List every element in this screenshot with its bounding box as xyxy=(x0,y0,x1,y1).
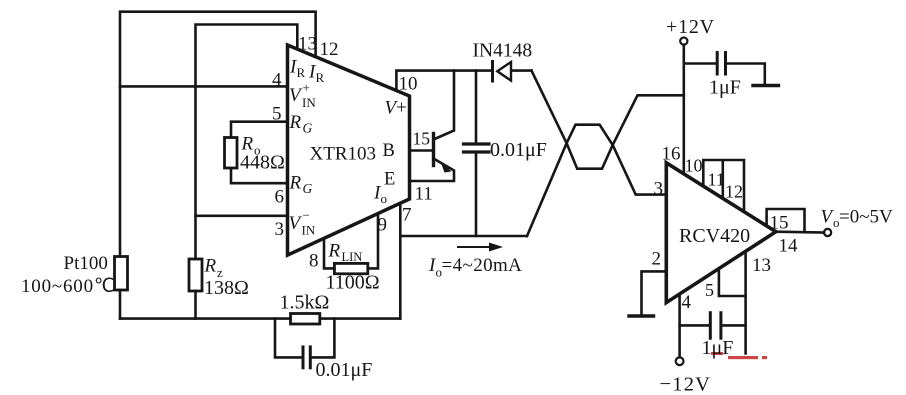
resistor Ro 448 ohm xyxy=(225,138,238,169)
svg-text:R: R xyxy=(289,173,302,194)
svg-text:1μF: 1μF xyxy=(709,77,741,99)
terminal -12V xyxy=(676,357,684,365)
svg-text:100~600℃: 100~600℃ xyxy=(21,276,116,297)
capacitor 0.01uF upper wire top xyxy=(475,71,478,143)
svg-text:16: 16 xyxy=(662,144,681,165)
wire pin8 stub xyxy=(324,238,334,268)
ground pin2 xyxy=(629,314,654,317)
svg-text:15: 15 xyxy=(413,129,431,149)
svg-text:R: R xyxy=(297,65,306,80)
wire cap bypass right xyxy=(313,319,335,358)
wire pin13 vertical xyxy=(744,251,747,353)
arrow Io current xyxy=(458,246,494,248)
svg-text:13: 13 xyxy=(298,34,317,55)
wire output Vo xyxy=(776,230,824,233)
svg-text:5: 5 xyxy=(272,104,282,125)
node pin15 box output xyxy=(767,209,805,232)
capacitor 1uF bottom xyxy=(709,313,712,339)
wire 1uF bottom right xyxy=(722,324,746,327)
transistor Q1 emitter xyxy=(410,159,455,182)
svg-text:XTR103: XTR103 xyxy=(310,144,377,165)
svg-text:6: 6 xyxy=(275,187,285,208)
svg-text:8: 8 xyxy=(309,251,319,272)
wire pin10 stub and V+ top rail xyxy=(396,71,492,91)
terminal +12V xyxy=(680,38,687,45)
svg-text:3: 3 xyxy=(654,179,664,200)
svg-text:2: 2 xyxy=(652,249,662,270)
svg-text:IN: IN xyxy=(302,223,316,238)
transistor Q1 base bar xyxy=(432,134,435,166)
svg-text:R: R xyxy=(289,112,302,133)
svg-text:10: 10 xyxy=(399,74,418,95)
diode D1 IN4148 xyxy=(491,62,494,82)
svg-text:+12V: +12V xyxy=(666,16,715,38)
capacitor 0.01uF upper wire bottom xyxy=(475,153,478,236)
svg-text:138Ω: 138Ω xyxy=(204,277,249,299)
wire twisted pair B xyxy=(527,125,666,236)
svg-text:448Ω: 448Ω xyxy=(240,152,285,174)
wire Io line xyxy=(400,235,527,238)
wire pin2 to ground xyxy=(642,271,667,316)
svg-text:11: 11 xyxy=(415,184,433,205)
wire pin3 V-IN xyxy=(196,215,288,218)
wire pin4 to -12V xyxy=(678,294,681,357)
wire Rz bottom xyxy=(194,291,197,319)
svg-text:Pt100: Pt100 xyxy=(64,253,108,274)
wire outer loop pin12 to left rail xyxy=(120,12,316,257)
svg-text:12: 12 xyxy=(725,182,743,202)
svg-text:13: 13 xyxy=(752,255,771,276)
wire pin7 vertical xyxy=(399,203,402,318)
wire pin4 V+IN xyxy=(120,85,288,88)
svg-text:1100Ω: 1100Ω xyxy=(326,272,380,294)
wire Pt100 bottom xyxy=(119,290,122,319)
op-amp U2 RCV420 body xyxy=(666,163,776,303)
svg-text:0.01μF: 0.01μF xyxy=(316,359,373,381)
svg-text:9: 9 xyxy=(378,215,388,236)
wire pins 10-11-12 tie xyxy=(703,160,744,212)
svg-text:5: 5 xyxy=(705,280,714,300)
svg-text:LIN: LIN xyxy=(342,250,363,264)
svg-text:12: 12 xyxy=(320,39,339,60)
terminal Vo xyxy=(824,229,831,236)
capacitor 0.01uF bottom xyxy=(302,347,305,368)
op-amp U1 XTR103 body xyxy=(288,45,410,255)
ground top right xyxy=(753,84,779,87)
capacitor 0.01uF upper plates xyxy=(464,142,490,145)
svg-text:1.5kΩ: 1.5kΩ xyxy=(280,292,330,314)
wire bottom rail right xyxy=(320,317,401,320)
svg-text:−12V: −12V xyxy=(660,374,712,395)
svg-text:+: + xyxy=(303,80,310,95)
svg-text:=4~20mA: =4~20mA xyxy=(442,255,523,276)
wire 1uF to ground xyxy=(727,64,765,85)
wire pin5 S step xyxy=(719,269,746,296)
wire Ro bottom to pin6 xyxy=(231,168,288,183)
red watermark xyxy=(711,352,767,359)
svg-text:R: R xyxy=(316,70,325,85)
svg-text:G: G xyxy=(303,121,313,136)
resistor Rz xyxy=(189,259,202,291)
svg-text:B: B xyxy=(383,141,395,161)
svg-text:=0~5V: =0~5V xyxy=(839,207,893,228)
wire inner loop pin13 to Rz node xyxy=(196,25,298,260)
wire diode to twisted pair xyxy=(512,69,532,72)
wire to 1uF top cap xyxy=(684,62,716,65)
transistor Q1 base wire pin15 xyxy=(410,149,434,152)
svg-text:11: 11 xyxy=(708,170,725,190)
resistor Pt100 xyxy=(115,257,128,291)
svg-text:G: G xyxy=(303,181,313,196)
svg-text:RCV420: RCV420 xyxy=(679,225,750,247)
wire pin9 stub xyxy=(368,214,378,269)
svg-text:R: R xyxy=(328,241,341,262)
transistor Q1 emitter arrow xyxy=(441,162,452,173)
svg-text:15: 15 xyxy=(770,213,789,234)
wire cap bypass left xyxy=(275,319,301,358)
wire +12V vertical to pin16 xyxy=(682,45,685,174)
svg-text:o: o xyxy=(381,191,388,206)
svg-text:7: 7 xyxy=(402,205,412,226)
wire twisted pair A xyxy=(532,71,684,169)
svg-text:10: 10 xyxy=(685,156,703,176)
wire Ro top to pin5 xyxy=(231,122,288,138)
resistor 1.5k xyxy=(291,314,320,325)
resistor RLIN 1100 ohm xyxy=(334,263,367,273)
capacitor 1uF top xyxy=(716,53,719,75)
svg-text:14: 14 xyxy=(779,236,799,257)
svg-text:E: E xyxy=(384,170,395,190)
svg-text:IN4148: IN4148 xyxy=(473,41,533,62)
svg-text:4: 4 xyxy=(272,70,282,91)
wire bottom rail left xyxy=(120,317,291,320)
svg-text:R: R xyxy=(204,256,217,277)
svg-text:3: 3 xyxy=(275,219,285,240)
transistor Q1 collector xyxy=(434,71,455,140)
svg-text:0.01μF: 0.01μF xyxy=(490,139,547,161)
svg-text:−: − xyxy=(303,208,310,223)
svg-text:V+: V+ xyxy=(385,98,407,119)
wire 1uF bottom left xyxy=(680,324,710,327)
svg-text:4: 4 xyxy=(682,292,692,313)
svg-text:IN: IN xyxy=(302,95,316,110)
svg-text:1μF: 1μF xyxy=(702,337,734,359)
